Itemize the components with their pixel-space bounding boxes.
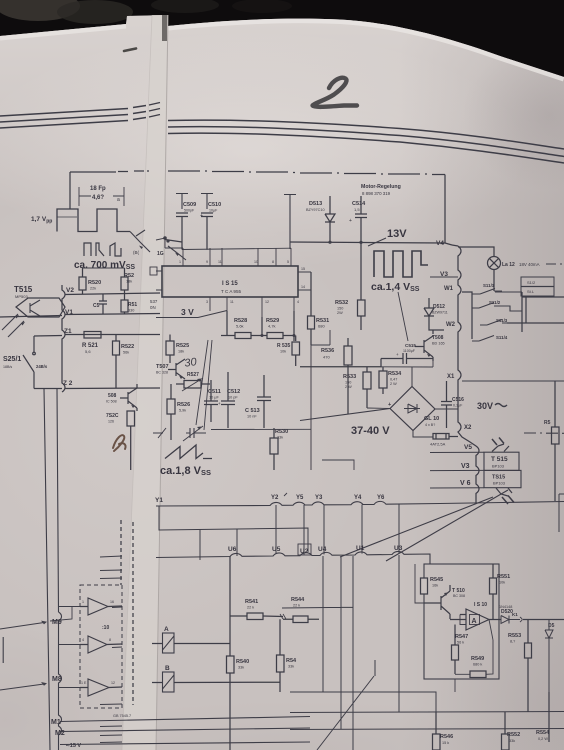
resistor R528	[221, 311, 262, 339]
svg-text:R 535: R 535	[277, 343, 291, 349]
svg-text:R5: R5	[544, 420, 551, 426]
waveform ca 1,4Vss	[374, 251, 428, 277]
svg-text:0,2 W: 0,2 W	[538, 737, 548, 741]
bus row 2	[159, 506, 308, 552]
svg-text:C511: C511	[208, 389, 221, 395]
svg-text:X1: X1	[447, 374, 455, 380]
seam tape strip between pages	[122, 15, 168, 750]
svg-text:18 Fp: 18 Fp	[90, 186, 106, 192]
svg-text:BC 328: BC 328	[156, 371, 168, 375]
svg-text:8 898 370 319: 8 898 370 319	[362, 191, 391, 196]
svg-text:10: 10	[254, 260, 258, 264]
svg-text:18B/s: 18B/s	[3, 365, 12, 369]
svg-text:10 nF: 10 nF	[247, 415, 257, 419]
svg-text:R553: R553	[508, 633, 521, 639]
svg-text:B: B	[165, 665, 170, 672]
IC bottom pins	[210, 297, 294, 317]
frame left vertical	[69, 172, 71, 209]
svg-text:10k: 10k	[280, 350, 286, 354]
connector box St	[521, 277, 554, 296]
caps bottom row wire	[211, 428, 311, 430]
resistor R543	[277, 619, 298, 692]
svg-text:37-40 V: 37-40 V	[351, 425, 390, 437]
svg-text:33k: 33k	[238, 666, 244, 670]
svg-text:V 6: V 6	[460, 480, 471, 487]
svg-text:2 W: 2 W	[345, 385, 352, 389]
resistor R521	[82, 332, 101, 355]
resistor 752C	[106, 411, 135, 470]
leader from waveform to C515	[398, 292, 408, 341]
svg-text:14: 14	[301, 285, 305, 289]
svg-text:11: 11	[230, 300, 234, 304]
IC top pins	[183, 248, 291, 266]
box corner bottom-right	[559, 494, 564, 532]
resistor R523	[121, 268, 134, 294]
svg-text:Y1: Y1	[155, 497, 163, 504]
svg-text:+: +	[396, 352, 399, 357]
svg-text:V5: V5	[464, 444, 472, 451]
svg-text:R536: R536	[321, 348, 334, 354]
svg-text:12: 12	[111, 681, 115, 685]
svg-text:22k: 22k	[90, 287, 96, 291]
svg-text:5: 5	[287, 260, 289, 264]
svg-text:V3: V3	[461, 463, 470, 470]
svg-text:I S 10: I S 10	[474, 602, 487, 608]
svg-text:C516: C516	[452, 397, 464, 403]
svg-text:15 k: 15 k	[442, 741, 449, 745]
svg-text:R533: R533	[343, 374, 356, 380]
svg-text:R532: R532	[335, 300, 348, 306]
svg-text:R522: R522	[121, 344, 134, 350]
svg-text:IC 508: IC 508	[106, 400, 117, 404]
svg-text:T 515: T 515	[491, 456, 508, 463]
svg-text:0,1μF: 0,1μF	[453, 404, 463, 408]
svg-text:BP103: BP103	[492, 464, 505, 469]
svg-text:R554: R554	[536, 730, 550, 736]
svg-text:15: 15	[301, 267, 305, 271]
svg-text:R541: R541	[245, 599, 258, 605]
svg-text::10: :10	[102, 625, 109, 631]
svg-text:4,6?: 4,6?	[92, 195, 104, 201]
fuse 4AT2,5A	[430, 434, 458, 447]
svg-text:(B(: (B(	[133, 250, 140, 255]
long tilted wires from T507 down to trimmer	[196, 340, 212, 430]
left page stubs at seam	[100, 556, 122, 743]
capacitor C509	[176, 194, 196, 250]
svg-text:33k: 33k	[509, 739, 515, 743]
curl highlight along top edge	[168, 20, 564, 78]
svg-text:10k: 10k	[499, 581, 505, 585]
svg-text:Motor-Regelung: Motor-Regelung	[361, 184, 401, 190]
bridge rectifier GL10	[388, 387, 439, 431]
resistor R531	[308, 272, 330, 345]
zener D512	[424, 298, 448, 330]
resistor R525	[166, 335, 189, 364]
dash-dot frame top (Motor-Regelung box)	[70, 171, 116, 173]
light arrows upper	[492, 444, 509, 452]
svg-text:M1: M1	[51, 719, 61, 726]
svg-text:3 V: 3 V	[181, 307, 194, 317]
svg-text:537: 537	[150, 299, 158, 304]
op-amp A IS10	[450, 602, 501, 630]
svg-text:56k: 56k	[123, 351, 129, 355]
svg-text:22 k: 22 k	[247, 606, 254, 610]
svg-text:W1: W1	[444, 286, 454, 292]
resistor R553	[508, 620, 532, 712]
svg-text:a: a	[117, 197, 120, 203]
left frame stub	[2, 637, 4, 663]
svg-text:+: +	[218, 401, 221, 406]
waveform 1,7Vpp square	[57, 209, 130, 232]
svg-text:30V: 30V	[477, 401, 493, 411]
svg-text:0,47: 0,47	[390, 378, 397, 382]
sawtooth waveform	[165, 445, 212, 459]
capacitor C5	[93, 294, 107, 314]
transistor T507	[156, 359, 185, 379]
svg-text:A: A	[164, 626, 169, 633]
svg-text:C509: C509	[183, 202, 196, 208]
svg-text:U5: U5	[272, 546, 281, 553]
pen dash mark	[124, 49, 136, 52]
svg-text:T507: T507	[156, 364, 169, 370]
IC left pin	[156, 271, 162, 290]
waveform small pulses (700mV)	[84, 243, 121, 256]
resistor R549	[455, 620, 493, 678]
resistor R5xx right edge	[544, 381, 559, 501]
border rules right page (curved)	[168, 120, 564, 163]
resistor R552	[502, 712, 521, 750]
wire arrow contact	[130, 230, 150, 252]
wire contact right page	[168, 246, 186, 260]
svg-text:R526: R526	[177, 402, 190, 408]
svg-text:U2: U2	[300, 548, 309, 555]
svg-text:Y2: Y2	[271, 495, 279, 501]
buffer triangle 3	[80, 679, 122, 696]
svg-text:7S2C: 7S2C	[106, 413, 119, 419]
bus U row	[156, 551, 430, 564]
long diagonal wires to optocouplers	[340, 497, 493, 557]
svg-text:I S 15: I S 15	[222, 281, 238, 287]
capacitor C515	[390, 343, 420, 364]
svg-text:24B/s: 24B/s	[36, 364, 48, 369]
svg-text:MP503: MP503	[15, 294, 28, 299]
resistor R520	[79, 268, 101, 294]
resistor R554	[536, 692, 550, 742]
svg-text:33k: 33k	[288, 665, 294, 669]
svg-text:9: 9	[206, 260, 208, 264]
capacitor C512	[218, 372, 240, 428]
svg-text:Y6: Y6	[377, 495, 385, 501]
phototransistor T515 left	[2, 285, 65, 337]
svg-text:BC 308: BC 308	[453, 594, 465, 598]
resistor R5 330	[121, 294, 137, 314]
svg-text:R527: R527	[187, 372, 199, 378]
svg-text:680 k: 680 k	[473, 663, 482, 667]
dash-dot continuation X2	[524, 432, 564, 434]
capacitor C513	[245, 375, 271, 428]
wire top of R520/R523	[83, 262, 125, 268]
dimension annotation 18Fp	[79, 187, 124, 206]
svg-text:Y4: Y4	[354, 495, 362, 501]
svg-text:8,?: 8,?	[510, 640, 515, 644]
svg-text:4: 4	[82, 638, 84, 642]
resistor R529	[261, 311, 296, 341]
capacitor C516	[441, 381, 464, 428]
svg-text:5,9k: 5,9k	[179, 409, 186, 413]
bridge wires	[300, 367, 458, 437]
svg-text:R51: R51	[128, 302, 137, 308]
resistor R546	[433, 712, 454, 750]
svg-text:R547: R547	[455, 634, 468, 640]
svg-text:C515: C515	[405, 343, 416, 348]
border rules left page	[0, 103, 160, 129]
svg-text:R530: R530	[275, 429, 288, 435]
svg-text:2 W: 2 W	[390, 382, 397, 386]
svg-text:U3: U3	[394, 545, 403, 552]
svg-text:16: 16	[110, 600, 114, 604]
jumper B	[152, 665, 280, 692]
svg-text:BZW9711: BZW9711	[432, 311, 448, 315]
resistor R532	[335, 242, 365, 330]
svg-text:R544: R544	[291, 597, 305, 603]
op-amp section box	[424, 564, 499, 679]
resistor R530	[270, 428, 288, 470]
svg-text:22 k: 22 k	[293, 604, 300, 608]
svg-text:D513: D513	[309, 201, 322, 207]
lamp La12	[488, 257, 563, 292]
svg-text:1: 1	[82, 600, 84, 604]
svg-text:10 pF: 10 pF	[228, 396, 238, 400]
svg-text:R545: R545	[430, 577, 443, 583]
svg-text:Z 2: Z 2	[63, 380, 73, 387]
svg-text:V2: V2	[66, 287, 74, 294]
capacitor C514	[349, 196, 367, 242]
lamp branch wire	[458, 247, 494, 256]
bottom wiring rows right	[290, 692, 436, 712]
left trunk with node bumps	[62, 285, 65, 392]
resistor R522	[113, 335, 135, 388]
svg-text:U1: U1	[356, 545, 365, 552]
svg-text:V4: V4	[436, 240, 444, 247]
svg-text:11: 11	[218, 260, 222, 264]
svg-text:R534: R534	[388, 371, 402, 377]
wire row under C515	[300, 359, 433, 367]
connector trunk with bumps	[458, 246, 479, 503]
svg-text:0N: 0N	[150, 305, 156, 310]
diode D520	[499, 605, 564, 624]
svg-text:150: 150	[345, 381, 351, 385]
handwritten 2	[313, 78, 358, 107]
transistor T510	[424, 585, 465, 619]
svg-text:680: 680	[318, 324, 325, 329]
svg-text:X2: X2	[464, 425, 472, 431]
transistor 508	[106, 384, 137, 411]
svg-text:S1/2: S1/2	[527, 280, 536, 285]
svg-text:470: 470	[323, 355, 330, 360]
light arrows lower	[496, 488, 512, 496]
svg-text:500pF: 500pF	[184, 209, 195, 213]
supply wire 13V rail	[165, 240, 445, 244]
svg-text:C512: C512	[227, 389, 240, 395]
frame right vertical	[444, 175, 446, 244]
svg-text:S11/4: S11/4	[496, 335, 508, 340]
resistor R544	[283, 597, 319, 623]
bus Y row	[156, 501, 564, 506]
svg-text:4 x B?: 4 x B?	[425, 423, 435, 427]
dashed IC box left bottom	[80, 520, 133, 708]
resistor R534	[379, 367, 402, 394]
svg-text:10μF: 10μF	[209, 209, 218, 213]
wire mid column	[311, 330, 330, 470]
svg-text:18k: 18k	[178, 350, 184, 354]
svg-text:5,6: 5,6	[85, 349, 91, 354]
capacitor C510	[200, 194, 221, 250]
svg-text:+: +	[349, 218, 352, 224]
svg-text:BD 165: BD 165	[432, 342, 445, 346]
svg-text:1: 1	[179, 260, 181, 264]
svg-text:BP103: BP103	[493, 481, 506, 486]
svg-text:T515: T515	[14, 285, 33, 294]
transistor T508	[415, 330, 445, 361]
svg-text:R551: R551	[497, 574, 510, 580]
svg-text:508: 508	[108, 393, 117, 399]
resistor R545	[421, 577, 444, 594]
svg-text:R546: R546	[440, 734, 453, 740]
svg-text:1100μF: 1100μF	[403, 349, 416, 353]
IC IS15 TCA955	[150, 248, 311, 317]
svg-text:C 513: C 513	[245, 408, 260, 414]
svg-text:1G: 1G	[157, 251, 164, 257]
svg-text:18k: 18k	[126, 280, 132, 284]
resistor R536	[321, 338, 352, 414]
svg-text:5,6k: 5,6k	[236, 324, 244, 329]
capacitor C511	[204, 380, 221, 422]
svg-text:4: 4	[297, 300, 299, 304]
svg-text:R52: R52	[124, 273, 134, 279]
svg-text:56 k: 56 k	[457, 641, 464, 645]
verticals from op-amp box to rows	[415, 564, 424, 603]
svg-text:T C A 955: T C A 955	[221, 289, 242, 294]
svg-text:12: 12	[265, 300, 269, 304]
svg-text:BZY97C10: BZY97C10	[306, 208, 325, 212]
resistor R551	[490, 564, 511, 619]
svg-text:126: 126	[108, 420, 114, 424]
svg-text:GB 7545.7: GB 7545.7	[113, 714, 131, 718]
svg-text:16k: 16k	[432, 584, 438, 588]
switch bank S11	[462, 283, 564, 341]
svg-text:R54: R54	[286, 658, 297, 664]
buffer triangle 1	[80, 598, 122, 615]
resistor R533	[343, 367, 371, 408]
section box edge mid	[322, 460, 354, 470]
svg-text:W2: W2	[446, 322, 456, 328]
svg-text:M8: M8	[52, 676, 62, 683]
trimmer pot mid	[153, 426, 206, 441]
svg-text:C510: C510	[208, 202, 221, 208]
svg-text:C5: C5	[93, 303, 100, 309]
svg-text:18V 40mA: 18V 40mA	[519, 262, 540, 267]
zener D513	[306, 196, 335, 242]
svg-text:8: 8	[109, 638, 111, 642]
diode D5xx right	[545, 620, 555, 712]
svg-text:S11/1: S11/1	[483, 283, 495, 288]
svg-text:13V: 13V	[387, 228, 407, 240]
svg-text:150: 150	[337, 307, 343, 311]
svg-text:Y3: Y3	[315, 495, 323, 501]
IC right pins	[298, 272, 311, 290]
switch S25/1	[3, 336, 48, 389]
svg-text:S25/1: S25/1	[3, 356, 21, 363]
terminal drop right	[284, 195, 296, 250]
left columns down	[44, 389, 62, 750]
svg-text:D512: D512	[433, 304, 445, 310]
svg-text:GL 10: GL 10	[424, 416, 439, 422]
check mark near Y2	[284, 493, 287, 496]
svg-text:T508: T508	[432, 335, 444, 341]
resistor R540	[227, 556, 250, 750]
svg-text:+: +	[388, 402, 391, 408]
svg-text:2W: 2W	[337, 311, 343, 315]
svg-text:K1: K1	[512, 612, 518, 617]
svg-text:Y5: Y5	[296, 495, 304, 501]
handwritten scribble	[113, 435, 126, 451]
svg-text:R520: R520	[88, 280, 101, 286]
resistor R535	[277, 336, 300, 367]
optocoupler TS15 box lower	[484, 470, 521, 487]
svg-text:3: 3	[206, 300, 208, 304]
svg-text:R540: R540	[236, 659, 249, 665]
svg-text:8: 8	[272, 260, 274, 264]
svg-text:1 E: 1 E	[81, 681, 87, 685]
svg-text:U6: U6	[228, 546, 237, 553]
resistor R547	[452, 625, 469, 675]
optocoupler T515 box upper	[484, 452, 519, 470]
svg-text:A: A	[472, 618, 477, 625]
svg-text:R549: R549	[471, 656, 484, 662]
svg-text:4AT2,5A: 4AT2,5A	[430, 442, 446, 447]
jumper A	[152, 626, 230, 653]
buffer triangle 2	[80, 636, 122, 653]
svg-text:U4: U4	[318, 546, 327, 553]
node U2 boxed	[298, 544, 311, 555]
svg-text:4,7k: 4,7k	[268, 324, 276, 329]
trimmer R527	[176, 372, 210, 391]
svg-text:R525: R525	[176, 343, 189, 349]
svg-text:St.L: St.L	[527, 289, 535, 294]
svg-text:La 12: La 12	[502, 262, 515, 268]
svg-text:1,5: 1,5	[354, 207, 360, 212]
resistor R541	[230, 599, 286, 620]
resistor R526	[167, 384, 190, 440]
verticals Y to U	[237, 504, 399, 556]
svg-text:330: 330	[128, 309, 134, 313]
